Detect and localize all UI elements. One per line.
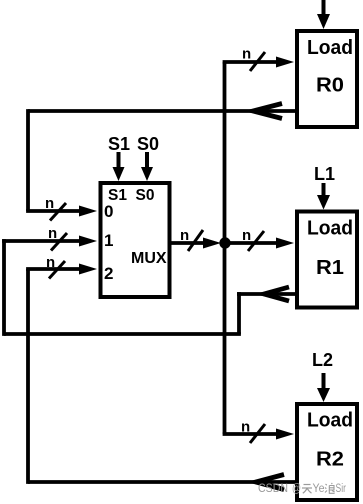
svg-text:R2: R2: [316, 449, 344, 471]
wire: junction to R1 (y=243): [225, 241, 280, 245]
svg-text:1: 1: [104, 231, 113, 250]
open arrow pointing left on R0 feedback: [253, 104, 282, 119]
svg-text:Load: Load: [307, 410, 353, 432]
wire: S1 select arrow into MUX: [117, 152, 121, 170]
arrowhead into junction dot: [203, 238, 221, 249]
svg-text:S0: S0: [136, 187, 155, 204]
slash mark on R1 input bus: [248, 231, 264, 251]
svg-text:n: n: [242, 227, 251, 244]
watermark text CSDN @天Ye浪Sir: [258, 483, 346, 495]
svg-text:n: n: [45, 195, 54, 212]
arrowhead into MUX input 0: [79, 206, 97, 217]
wire: S0 select arrow into MUX: [145, 152, 149, 170]
slash mark on R2 input bus: [250, 424, 265, 443]
wire: R1 feedback horizontal from R1 left (y=294): [237, 292, 295, 296]
wire: vertical x=4 from y=241 down to y=333: [2, 239, 6, 336]
wire: horizontal y=333 from x=4 to x=238: [4, 332, 241, 336]
arrowhead into R1: [276, 238, 294, 249]
svg-text:n: n: [180, 227, 189, 244]
open arrow pointing left on R2 feedback: [256, 475, 284, 490]
wire: MUX output segment to junction (y=243): [171, 241, 208, 245]
svg-text:Sir: Sir: [336, 483, 347, 495]
wire: clock/top arrow into R0: [322, 0, 326, 18]
multiplexer MUX: [101, 183, 170, 297]
register R2: [297, 404, 357, 500]
svg-text:n: n: [46, 254, 55, 271]
arrowhead into MUX input 1: [79, 236, 97, 247]
arrowhead into R0: [276, 57, 294, 68]
wire: horizontal into MUX input 1 (y=241): [2, 239, 83, 243]
svg-text:S0: S0: [137, 134, 159, 154]
wire: vertical x=238 from R1 feedback down to y=333: [237, 292, 241, 334]
slash mark on MUX input 1 bus: [51, 233, 67, 251]
slash mark on MUX output bus: [188, 230, 203, 251]
wire: L2 arrow into R2: [322, 373, 326, 391]
slash mark on R0 input bus: [250, 52, 265, 71]
wire: R2 feedback horizontal (y=482) from R2 left to x=28: [28, 480, 295, 484]
svg-text:2: 2: [104, 264, 113, 283]
junction node dot: [219, 237, 230, 248]
svg-text:R1: R1: [316, 257, 344, 279]
open arrow pointing left on R1 feedback: [264, 287, 289, 301]
wire: horizontal bus into R2 (y=434): [223, 432, 280, 436]
svg-text:Load: Load: [307, 37, 353, 59]
svg-text:Load: Load: [307, 218, 353, 240]
svg-text:MUX: MUX: [131, 250, 167, 267]
wire: vertical x=28 from MUX input 2 level down to R2 feedback: [26, 269, 30, 484]
svg-text:R0: R0: [316, 75, 344, 97]
svg-text:n: n: [241, 419, 250, 436]
svg-text:CSDN: CSDN: [258, 483, 288, 495]
svg-text:L1: L1: [314, 164, 335, 184]
wire: vertical from R0 feedback down to MUX input 0 (x=28): [26, 109, 30, 211]
svg-text:0: 0: [104, 202, 113, 221]
register R1: [297, 212, 357, 308]
wire: horizontal into MUX input 2 (y=269): [26, 267, 83, 271]
wire: horizontal bus into R0 (y=62): [223, 60, 280, 64]
arrowhead into MUX input 2: [79, 264, 97, 275]
register R0: [297, 31, 357, 127]
svg-text:@: @: [292, 483, 301, 495]
wire: R0 feedback horizontal (y=111) from R0 left to x=28: [28, 109, 295, 113]
svg-text:L2: L2: [312, 350, 333, 370]
slash mark on MUX input 0 bus: [50, 203, 66, 221]
svg-text:Ye: Ye: [313, 483, 325, 495]
wire: vertical bus from R0 input corner down to R2 input corner (x=224.5): [223, 62, 227, 434]
arrowhead into R2: [276, 429, 294, 440]
svg-text:n: n: [242, 46, 251, 63]
wire: L1 arrow into R1: [322, 183, 326, 198]
wire: horizontal into MUX input 0 (y=211): [26, 209, 83, 213]
slash mark on MUX input 2 bus: [49, 261, 65, 279]
svg-text:n: n: [48, 225, 57, 242]
svg-text:S1: S1: [108, 134, 130, 154]
